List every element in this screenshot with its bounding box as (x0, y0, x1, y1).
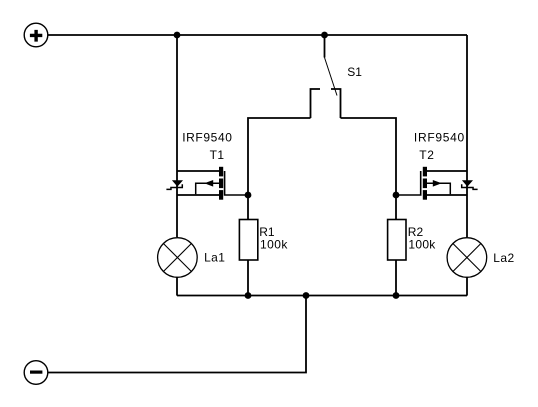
wire switch left contact to gate node (248, 118, 311, 195)
transistor T1 source wire (177, 194, 220, 196)
resistor R2 (388, 220, 406, 261)
terminal plus (24, 23, 48, 47)
transistor T1 body arrow (196, 180, 219, 194)
junction bottom R2 (393, 292, 400, 299)
svg-text:T1: T1 (210, 148, 225, 162)
junction top left (174, 32, 181, 39)
transistor T1 gate (225, 171, 248, 195)
wire right vertical (466, 35, 468, 237)
svg-text:IRF9540: IRF9540 (414, 131, 465, 145)
junction T1 gate node (245, 192, 252, 199)
resistor R1 (239, 220, 257, 261)
transistor T2 gate (396, 171, 421, 195)
wire R2 to bottom rail (395, 260, 397, 296)
wire bottom rail (177, 295, 467, 297)
wire R1 to bottom rail (247, 260, 249, 296)
switch S1 right contact (331, 89, 341, 118)
wire gate node to R1 (247, 195, 249, 220)
transistor T2 body arrow (427, 180, 450, 194)
transistor T2 channel bars (423, 167, 427, 200)
svg-text:IRF9540: IRF9540 (182, 131, 232, 145)
svg-text:T2: T2 (419, 148, 434, 162)
diode T1 body diode (166, 180, 183, 189)
wire La1 to bottom rail (176, 277, 178, 296)
wire gate node to R2 (395, 195, 397, 220)
junction top switch (321, 32, 328, 39)
svg-text:La2: La2 (493, 251, 514, 265)
wire bottom rail to minus terminal (48, 296, 306, 373)
switch S1 pole wire (324, 35, 326, 58)
terminal minus (24, 361, 48, 385)
wire left vertical (176, 35, 178, 237)
svg-text:La1: La1 (204, 251, 225, 265)
switch S1 left contact (311, 89, 321, 118)
svg-text:100k: 100k (408, 237, 436, 251)
transistor T1 drain wire (177, 170, 220, 172)
transistor T1 channel bars (219, 167, 223, 200)
wire top rail (48, 34, 467, 36)
transistor T2 drain wire (426, 170, 467, 172)
junction T2 gate node (393, 192, 400, 199)
wire La2 to bottom rail (466, 277, 468, 296)
lamp La1 (158, 238, 198, 278)
junction bottom R1 (245, 292, 252, 299)
wire switch right contact to gate node (341, 118, 397, 195)
junction bottom centre (303, 292, 310, 299)
transistor T2 source wire (426, 194, 467, 196)
svg-text:100k: 100k (260, 237, 288, 251)
svg-text:S1: S1 (347, 65, 362, 79)
switch S1 lever (325, 58, 338, 96)
diode T2 body diode (461, 180, 478, 189)
lamp La2 (447, 238, 487, 278)
